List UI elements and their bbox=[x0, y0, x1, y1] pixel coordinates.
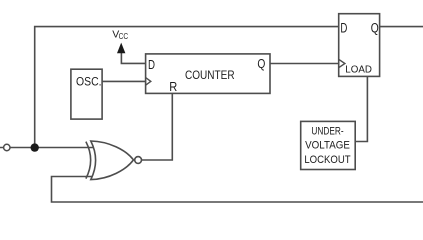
svg-text:R: R bbox=[169, 79, 177, 94]
Vcc arrow bbox=[117, 43, 125, 54]
flip-flop U3 bbox=[339, 14, 380, 77]
svg-text:Q: Q bbox=[371, 20, 379, 35]
wire: left rail from input node up and across top to flip-flop D bbox=[35, 27, 339, 148]
XNOR gate U1 bbox=[86, 141, 142, 180]
svg-text:D: D bbox=[148, 57, 155, 72]
oscillator OSC bbox=[71, 69, 102, 119]
svg-text:LOCKOUT: LOCKOUT bbox=[304, 154, 351, 166]
under-voltage lockout U4 bbox=[301, 121, 356, 169]
svg-text:D: D bbox=[340, 20, 347, 35]
svg-text:Q: Q bbox=[257, 56, 265, 71]
wire: counter Q to flip-flop clock bbox=[270, 63, 338, 65]
Vcc label bbox=[112, 28, 128, 41]
wire: flip-flop bottom to under-voltage lockout bbox=[355, 76, 367, 141]
input terminal bbox=[4, 144, 10, 150]
wire: flip-flop Q output to right edge bbox=[380, 26, 423, 28]
svg-text:COUNTER: COUNTER bbox=[185, 68, 235, 82]
wire: OSC output to counter clock bbox=[102, 80, 145, 82]
svg-text:UNDER-: UNDER- bbox=[311, 125, 343, 137]
wire: input terminal to XNOR top input bbox=[0, 147, 94, 149]
svg-text:CC: CC bbox=[119, 32, 129, 41]
svg-text:VOLTAGE: VOLTAGE bbox=[305, 139, 350, 151]
wire: XNOR output to counter R input bbox=[142, 93, 173, 160]
wire: Vcc arrow stem to counter D input bbox=[121, 53, 145, 63]
svg-text:LOAD: LOAD bbox=[345, 63, 372, 75]
wire: feedback from bottom rail to XNOR lower input bbox=[52, 177, 423, 203]
node: junction on left rail bbox=[31, 143, 39, 151]
svg-text:OSC.: OSC. bbox=[76, 75, 102, 89]
counter U2 bbox=[146, 54, 270, 94]
